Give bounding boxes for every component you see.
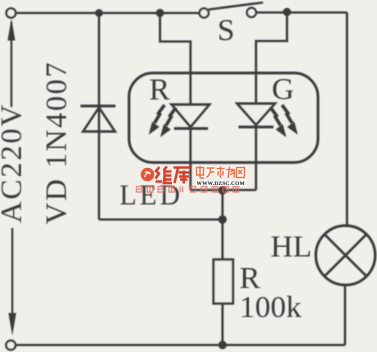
LED R cathode bar (174, 127, 208, 130)
wire diode branch vertical (98, 13, 100, 220)
wire resistor to bottom (221, 300, 223, 345)
LED G triangle (237, 104, 275, 126)
watermark logo circle (141, 168, 155, 182)
wire G LED cathode (255, 127, 257, 190)
lamp HL cross (325, 234, 367, 276)
lamp HL circle (316, 226, 375, 285)
wire diode branch to node horizontal (99, 218, 223, 220)
resistor R body (214, 260, 234, 304)
wire node to resistor (221, 190, 223, 260)
terminal top-left (6, 8, 15, 17)
wire R LED cathode (189, 129, 191, 191)
wire right side vertical to lamp (346, 13, 348, 227)
diode VD cathode bar (81, 105, 116, 108)
node junction dot diode join (218, 215, 227, 224)
svg-text:AC220V: AC220V (0, 103, 28, 223)
terminal bottom-left (6, 341, 15, 350)
wire switch left branch step to R LED (160, 13, 191, 105)
AC source up arrow (10, 22, 12, 107)
watermark 电子市场网 with glow (197, 166, 245, 178)
svg-text:VD 1N4007: VD 1N4007 (40, 61, 73, 225)
node junction dot top at diode branch (95, 9, 103, 17)
LED R triangle (172, 105, 210, 128)
wire top-right horizontal (256, 11, 347, 13)
LED G cathode bar (239, 126, 274, 129)
wire switch right branch step to G LED (256, 12, 287, 104)
node junction dot LED common (218, 186, 227, 195)
watermark group (137, 166, 245, 192)
svg-text:R: R (149, 72, 170, 107)
svg-text:HL: HL (271, 229, 312, 264)
switch S lever (209, 3, 264, 10)
svg-text:100k: 100k (240, 289, 303, 324)
svg-text:S: S (217, 12, 234, 47)
LED package outline (129, 73, 318, 163)
node junction dot bottom wire (218, 341, 226, 349)
AC source down arrow (11, 228, 13, 314)
svg-text:G: G (272, 71, 294, 106)
switch S contact right (247, 8, 256, 17)
svg-text:LED: LED (120, 181, 183, 212)
node junction dot top at switch left (156, 9, 164, 17)
LED G flash arrows (271, 105, 298, 136)
wire bottom horizontal (16, 344, 345, 346)
switch S contact left (199, 8, 208, 17)
watermark 维库 (156, 167, 191, 184)
diode VD triangle (83, 108, 115, 132)
watermark bottom char row (137, 186, 239, 192)
LED R flash arrows (150, 105, 177, 136)
wire top-left horizontal (16, 12, 200, 14)
wire LED common horizontal (191, 189, 257, 191)
wire lamp bottom lead (344, 285, 346, 345)
node junction dot top at switch right (283, 8, 291, 16)
